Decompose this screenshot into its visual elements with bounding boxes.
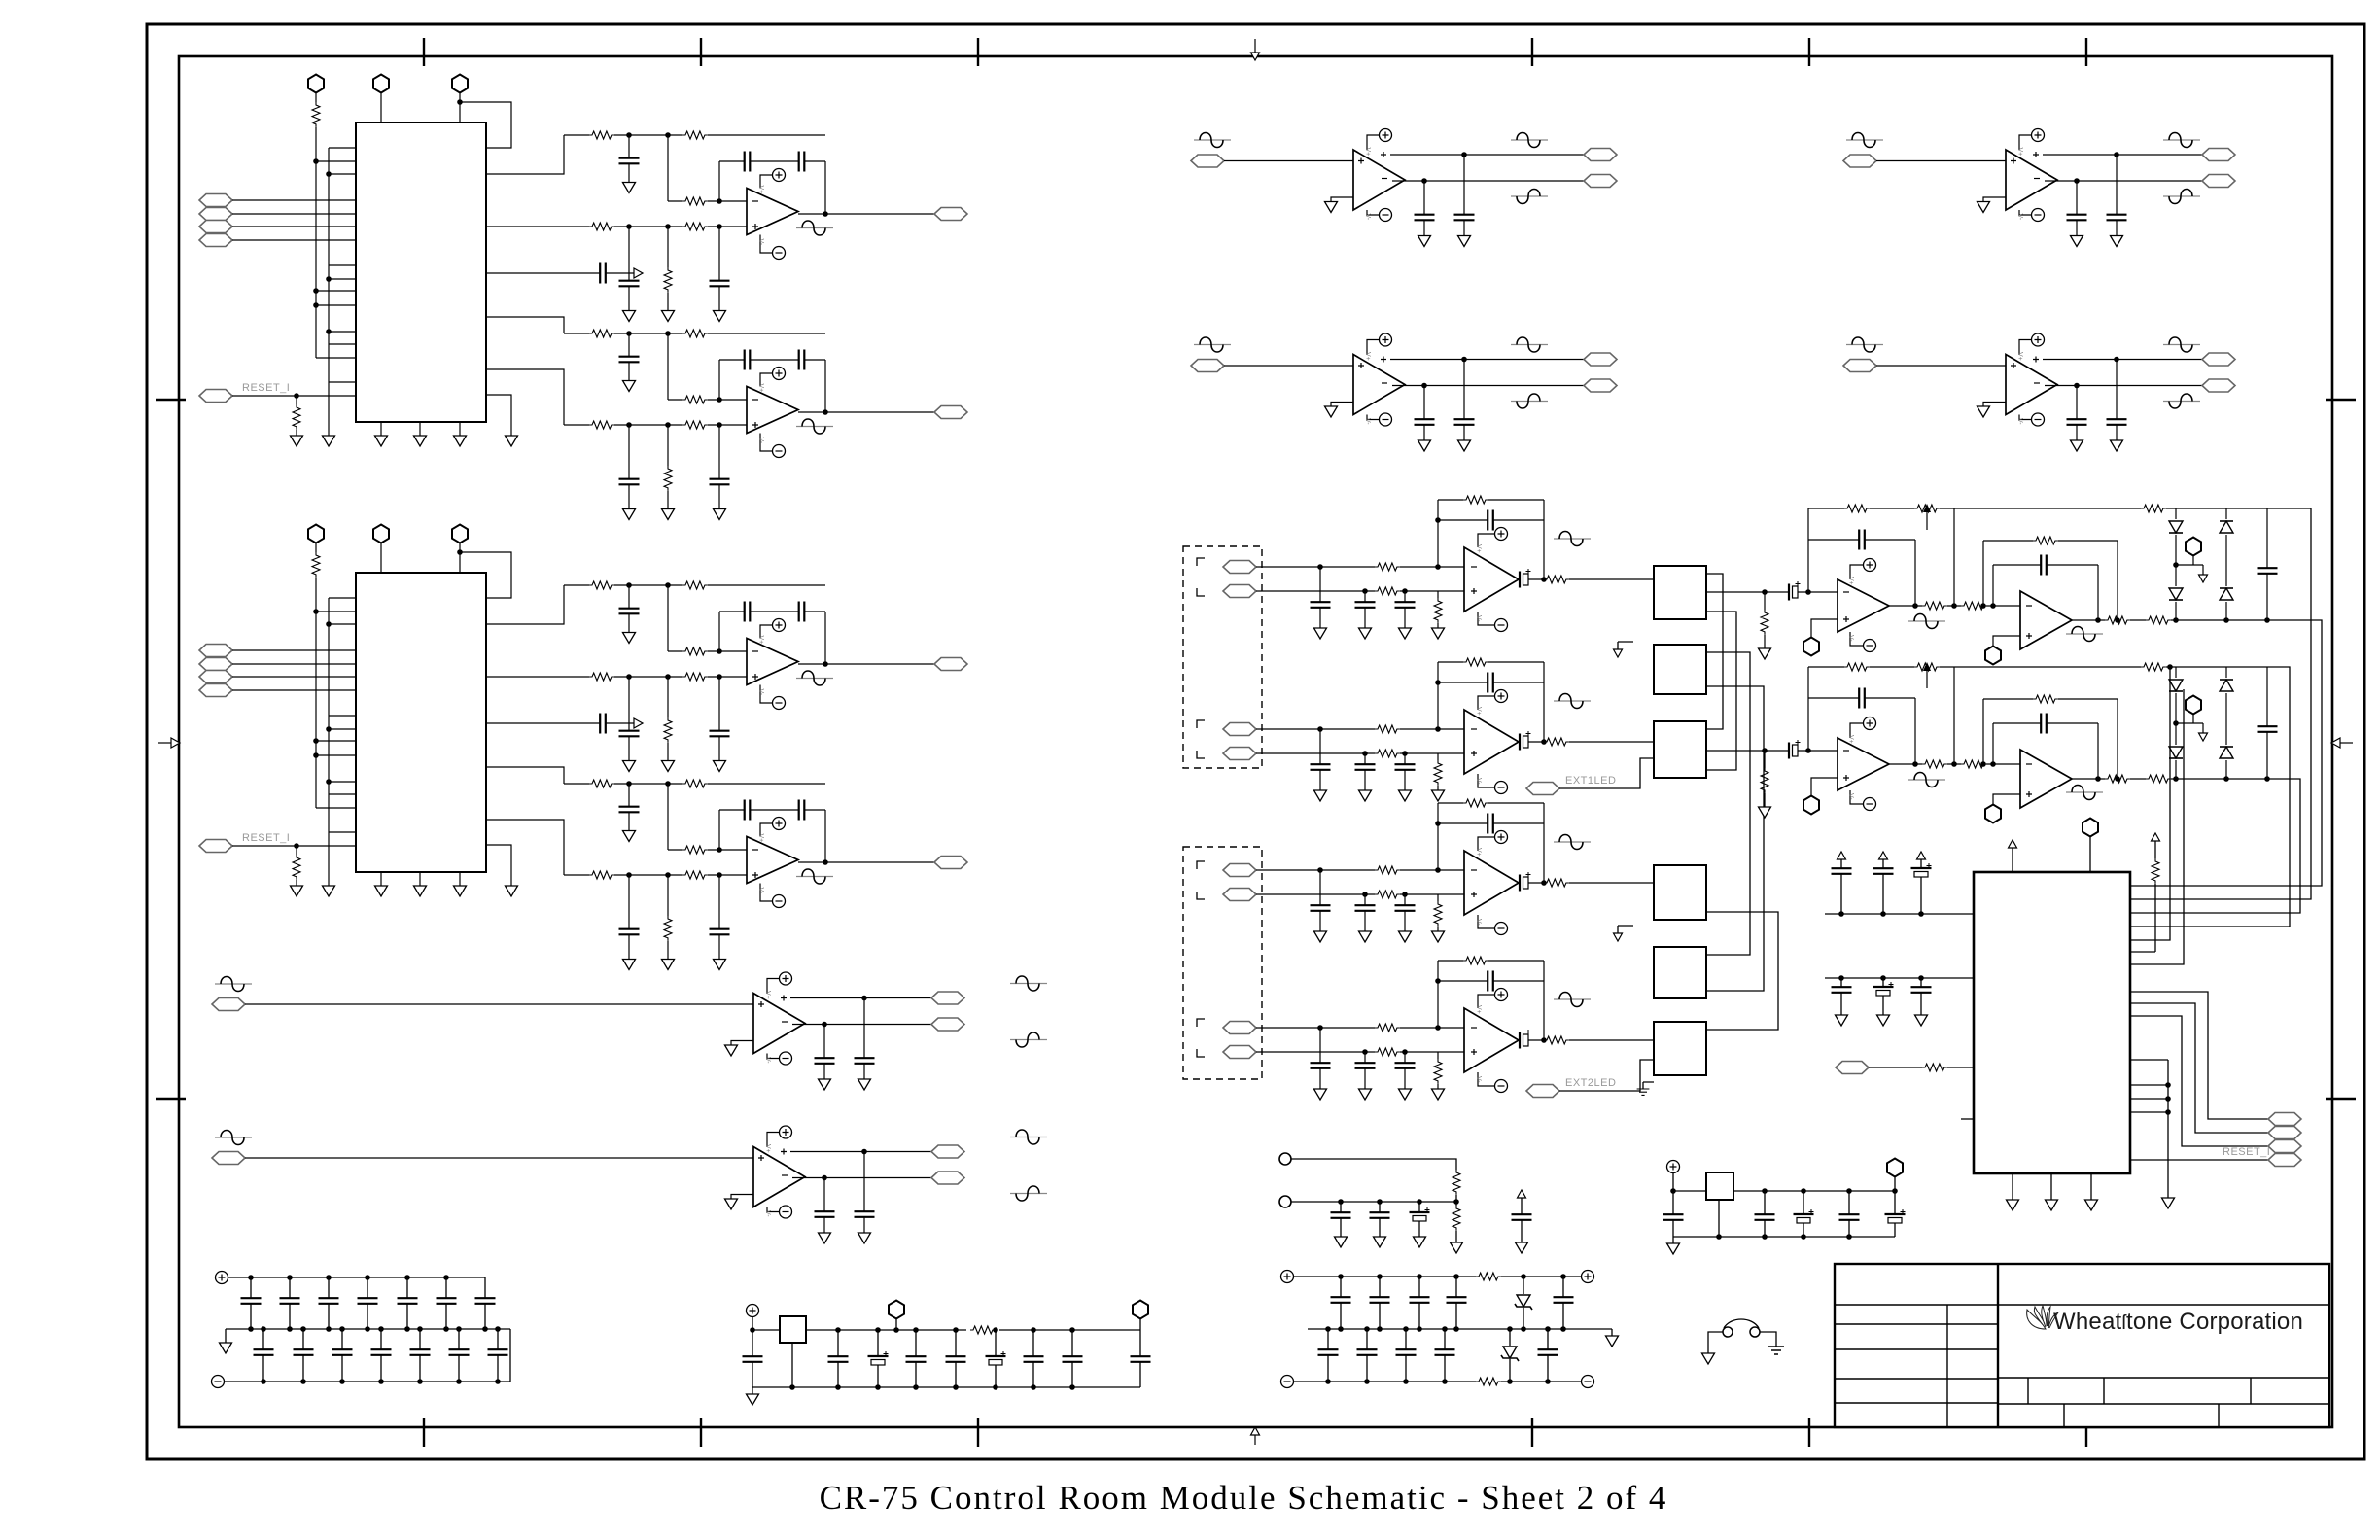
wire U10 to connector 2 [2130, 1003, 2301, 1139]
wire input 3 [1876, 160, 2006, 162]
sine mark input 6 [215, 1131, 252, 1145]
sine mark output 4 lower [2163, 394, 2200, 408]
regulator 1 input rail [752, 1317, 1140, 1331]
capacitor P1 [1832, 852, 1852, 917]
capacitor reg1 input [743, 1327, 763, 1387]
line driver cell 1 [1191, 129, 1617, 247]
line driver cell 2 [1191, 333, 1617, 451]
wire relay bus 2 [1706, 612, 1736, 770]
decoupling bank 1 mid rail [226, 1328, 510, 1330]
border tick right 2 [2326, 1098, 2356, 1100]
wire outputs 4 [2171, 360, 2202, 386]
sine mark output 4 upper [2163, 337, 2200, 352]
capacitor bank2 top 5 [1554, 1274, 1574, 1332]
border tick top 2 [700, 38, 702, 66]
wire U10 to rail f [2130, 689, 2184, 964]
capacitor bank1 bottom 4 [371, 1326, 392, 1384]
bank 2 plus terminal left [1281, 1271, 1294, 1283]
electrolytic reg1 e [986, 1327, 1006, 1390]
sine mark input 5 [215, 977, 252, 992]
title block right top row [1998, 1304, 2329, 1306]
decoupling bank 1 minus terminal [212, 1376, 225, 1388]
connector into U10 left [1836, 1062, 1974, 1074]
electrolytic reg2 d [1885, 1188, 1906, 1237]
relay K4 [1654, 865, 1706, 920]
driver core 5 [725, 972, 920, 1090]
capacitor bank2 bottom 5 [1538, 1326, 1558, 1384]
bracket marks cell 2 [1197, 720, 1205, 758]
connector output 4 plus [2202, 353, 2235, 366]
capacitor group above-left of U10 rail [1825, 913, 1974, 915]
title block left rows [1835, 1305, 1998, 1403]
pad on regulator rail 1 [889, 1301, 904, 1333]
capacitor reg1 d [946, 1327, 966, 1390]
border center marker right [2331, 738, 2353, 748]
capacitor terminal b [1370, 1199, 1390, 1247]
connector output 3 plus [2202, 149, 2235, 161]
capacitor bank1 top 1 [241, 1275, 262, 1332]
connector input 6 [212, 1152, 245, 1165]
bracket marks cell 4 [1197, 1019, 1205, 1057]
meter channel 1 [1740, 504, 2278, 665]
driver core 6 [725, 1126, 920, 1243]
input amplifier cell 4 [1223, 957, 1654, 1100]
relay K6 [1654, 1022, 1706, 1075]
capacitor P4 [1832, 975, 1852, 1026]
connector input 4 [1843, 360, 1876, 372]
regulator 2 input rail [1673, 1173, 1895, 1192]
wire outputs 6 [919, 1152, 931, 1178]
connector output 6 minus [931, 1172, 964, 1184]
connector output 5 plus [931, 992, 964, 1004]
bank 2 plus terminal right [1582, 1271, 1594, 1283]
title block main divider [1997, 1264, 1999, 1427]
border tick bottom 1 [423, 1418, 425, 1447]
title block bottom row dividers [2064, 1404, 2219, 1427]
fuse right earth [1760, 1332, 1784, 1354]
wire input 5 [245, 1003, 753, 1005]
bank 2 minus terminal right [1582, 1376, 1594, 1388]
capacitor reg1 h [1131, 1330, 1151, 1387]
capacitor bank2 top 1 [1331, 1274, 1351, 1332]
ground bus right of U10 [2130, 1060, 2175, 1208]
company logo feather [2027, 1306, 2058, 1329]
title block right row dividers [2028, 1378, 2251, 1404]
capacitor reg2 a [1755, 1188, 1775, 1240]
svg-text:EXT1LED: EXT1LED [1565, 775, 1616, 787]
ground near relay K5 [1614, 926, 1634, 941]
sine mark output 5 lower [1010, 1032, 1047, 1047]
ground U10 pin 3 [2085, 1173, 2098, 1210]
wire input 6 [245, 1157, 753, 1159]
relay K2 [1654, 645, 1706, 694]
border tick bottom 2 [700, 1418, 702, 1447]
border tick top 3 [977, 38, 979, 66]
bank 2 mid rail [1308, 1329, 1612, 1336]
ground small below relay K6 [1637, 1082, 1654, 1095]
pad above U10 [2082, 819, 2098, 873]
wire bus meter to U10 d [2130, 667, 2290, 927]
bank 2 mid rail ground [1606, 1336, 1619, 1347]
capacitor reg2 c [1839, 1188, 1860, 1240]
wire U10 to connector 1 [2130, 992, 2301, 1126]
wire relay bus 4 [1706, 686, 1764, 991]
DAC block 2 with output filters [199, 525, 967, 970]
bank 2 minus terminal left [1281, 1376, 1294, 1388]
pad on regulator 2 rail [1887, 1159, 1903, 1192]
capacitor P2 [1873, 852, 1894, 917]
decoupling bank 1 plus terminal [216, 1272, 228, 1284]
border tick bottom 6 [2085, 1418, 2087, 1447]
title block right lower rows [1998, 1378, 2329, 1404]
terminal circle lower [1279, 1196, 1456, 1207]
decoupling bank 1 ground hook [220, 1329, 232, 1353]
line driver cell 4 [1843, 333, 2235, 451]
bracket marks cell 3 [1197, 861, 1205, 899]
resistor regulator rail [970, 1326, 996, 1334]
input amplifier cell 3 [1223, 799, 1654, 942]
regulator 2 ground [1667, 1237, 1680, 1254]
regulator VR1 [780, 1316, 806, 1343]
wire outputs 5 [919, 998, 931, 1025]
electrolytic terminal c [1410, 1199, 1430, 1247]
regulator 1 input terminal [747, 1305, 759, 1317]
wire U10 to connector RESET_I [2130, 1146, 2301, 1167]
capacitor bank1 bottom 1 [254, 1326, 274, 1384]
border tick top 5 [1808, 38, 1810, 66]
microcontroller U10 [1974, 872, 2130, 1173]
regulator 2 bottom rail [1673, 1236, 1895, 1238]
connector output 3 minus [2202, 175, 2235, 188]
ground U10 pin 2 [2046, 1173, 2058, 1210]
border tick right 1 [2326, 399, 2356, 401]
capacitor bank1 top 4 [358, 1275, 378, 1332]
capacitor reg1 f [1024, 1327, 1044, 1390]
connector input 3 [1843, 155, 1876, 167]
bank 2 resistor bottom rail [1476, 1378, 1501, 1385]
capacitor bank1 bottom 7 [488, 1326, 508, 1384]
connector EXT1LED [1526, 758, 1654, 795]
border tick left 2 [156, 1098, 186, 1100]
relay K3 [1654, 721, 1706, 778]
border tick top 1 [423, 38, 425, 66]
capacitor bank1 top 7 [475, 1277, 496, 1332]
power arrow above U10 [2009, 840, 2017, 872]
dashed connector box 1 [1183, 546, 1262, 768]
resistor terminal divider lower [1451, 1206, 1463, 1253]
border tick left 1 [156, 399, 186, 401]
border center marker top [1251, 39, 1260, 60]
border tick bottom 3 [977, 1418, 979, 1447]
regulator VR2 [1706, 1172, 1733, 1200]
wire bus meter to U10 c [2130, 779, 2300, 913]
capacitor bank1 bottom 2 [294, 1326, 314, 1384]
bank 2 resistor top rail [1476, 1273, 1501, 1280]
capacitor bank2 bottom 3 [1396, 1326, 1417, 1384]
capacitor bank1 bottom 3 [332, 1326, 353, 1384]
relay K1 [1654, 566, 1706, 619]
capacitor P6 [1911, 975, 1932, 1026]
wire relay bus 1 [1706, 574, 1723, 729]
border tick top 4 [1531, 38, 1533, 66]
regulator VR1 ground pin [789, 1343, 795, 1390]
capacitor bank1 top 6 [437, 1275, 457, 1332]
bracket marks cell 1 [1197, 558, 1205, 596]
meter channel 2 [1740, 662, 2278, 823]
sine mark input 4 [1846, 337, 1883, 352]
capacitor bank1 bottom 6 [449, 1326, 470, 1384]
wire bus meter to U10 b [2130, 508, 2311, 899]
decoupling bank 1 top rail [228, 1277, 485, 1278]
connector output 6 plus [931, 1145, 964, 1158]
capacitor bank2 top 4 [1447, 1274, 1467, 1332]
connector output 4 minus [2202, 379, 2235, 392]
capacitor bank2 top 3 [1410, 1274, 1430, 1332]
zener diode bank2 bottom [1501, 1326, 1519, 1384]
capacitor bank2 bottom 1 [1318, 1326, 1339, 1384]
electrolytic reg2 b [1794, 1188, 1814, 1240]
capacitor terminal a [1331, 1199, 1351, 1247]
line driver cell 3 [1843, 129, 2235, 247]
capacitor group 2 left of U10 rail [1825, 977, 1974, 979]
input amplifier cell 1 [1223, 496, 1654, 639]
border tick top 6 [2085, 38, 2087, 66]
wire U10 to rail e [2130, 664, 2173, 940]
wire U10 to connector 3 [2130, 1016, 2301, 1153]
capacitor bank2 top 2 [1370, 1274, 1390, 1332]
wire outputs 3 [2171, 155, 2202, 181]
capacitor reg2 input [1663, 1188, 1684, 1237]
wire relay bus 5 [1706, 912, 1778, 1030]
sine mark output 5 upper [1010, 976, 1047, 991]
resistor pullup right of U10 [2130, 833, 2160, 952]
DAC block 1 with output filters [199, 75, 967, 520]
stub U10 left pin [1961, 1118, 1974, 1120]
capacitor reg1 g [1063, 1327, 1083, 1390]
fuse left ground [1702, 1332, 1724, 1364]
connector output 5 minus [931, 1018, 964, 1031]
border tick bottom 4 [1531, 1418, 1533, 1447]
ground U10 pin 1 [2007, 1173, 2019, 1210]
wire input 4 [1876, 365, 2006, 367]
bank 2 top rail [1293, 1276, 1581, 1277]
svg-text:Wheatſtone Corporation: Wheatſtone Corporation [2053, 1309, 2303, 1335]
capacitor bank1 top 5 [398, 1275, 418, 1332]
bank 2 bottom rail [1293, 1381, 1581, 1382]
resistor terminal divider upper [1452, 1170, 1460, 1206]
line driver cell 5 [212, 972, 1047, 1090]
svg-text:CR-75 Control Room Module Sche: CR-75 Control Room Module Schematic - Sh… [820, 1479, 1668, 1517]
capacitor bank1 top 2 [280, 1275, 300, 1332]
capacitor bank2 bottom 2 [1357, 1326, 1378, 1384]
driver core 3 [1977, 129, 2172, 247]
sine mark output 3 upper [2163, 133, 2200, 148]
capacitor bank2 bottom 4 [1435, 1326, 1455, 1384]
electrolytic capacitor P5 [1873, 975, 1894, 1026]
sine mark input 3 [1846, 133, 1883, 148]
regulator VR2 ground pin [1716, 1200, 1722, 1240]
electrolytic reg1 b [868, 1327, 889, 1390]
decoupling bank 1 bottom rail [225, 1329, 510, 1382]
relay K5 [1654, 947, 1706, 998]
zener diode bank2 top [1515, 1274, 1532, 1332]
arrow capacitor mid [1512, 1190, 1532, 1253]
wire relay to meter 1 [1706, 591, 1740, 593]
wire bus meter to U10 a [2130, 620, 2322, 886]
wire relay to meter 2 [1706, 750, 1740, 752]
title block left column divider [1946, 1305, 1948, 1427]
svg-text:EXT2LED: EXT2LED [1565, 1077, 1616, 1089]
sine mark output 6 upper [1010, 1130, 1047, 1144]
pad on regulator rail 2 [1133, 1301, 1148, 1331]
electrolytic capacitor P3 [1911, 852, 1932, 917]
line driver cell 6 [212, 1126, 1047, 1243]
ground near relay K2 [1614, 642, 1634, 657]
title block outline [1835, 1264, 2329, 1427]
border center marker left [158, 738, 180, 748]
svg-text:RESET_I: RESET_I [2222, 1146, 2270, 1158]
wire relay bus 3 [1706, 652, 1750, 955]
regulator 1 bottom rail [752, 1386, 1140, 1388]
regulator 2 input terminal [1667, 1161, 1680, 1173]
capacitor bank1 top 3 [319, 1275, 339, 1332]
capacitor bank1 bottom 5 [410, 1326, 431, 1384]
sine mark output 3 lower [2163, 190, 2200, 204]
border center marker bottom [1251, 1427, 1260, 1445]
border tick bottom 5 [1808, 1418, 1810, 1447]
fuse F1 [1723, 1319, 1760, 1337]
connector EXT2LED [1526, 1060, 1654, 1098]
dashed connector box 2 [1183, 847, 1262, 1079]
driver core 4 [1977, 333, 2172, 451]
sine mark output 6 lower [1010, 1186, 1047, 1201]
connector input 5 [212, 998, 245, 1011]
terminal circle upper [1279, 1153, 1456, 1170]
capacitor reg1 a [828, 1327, 849, 1390]
regulator 1 ground [747, 1387, 759, 1405]
input amplifier cell 2 [1223, 658, 1654, 801]
capacitor reg1 c [906, 1327, 927, 1390]
